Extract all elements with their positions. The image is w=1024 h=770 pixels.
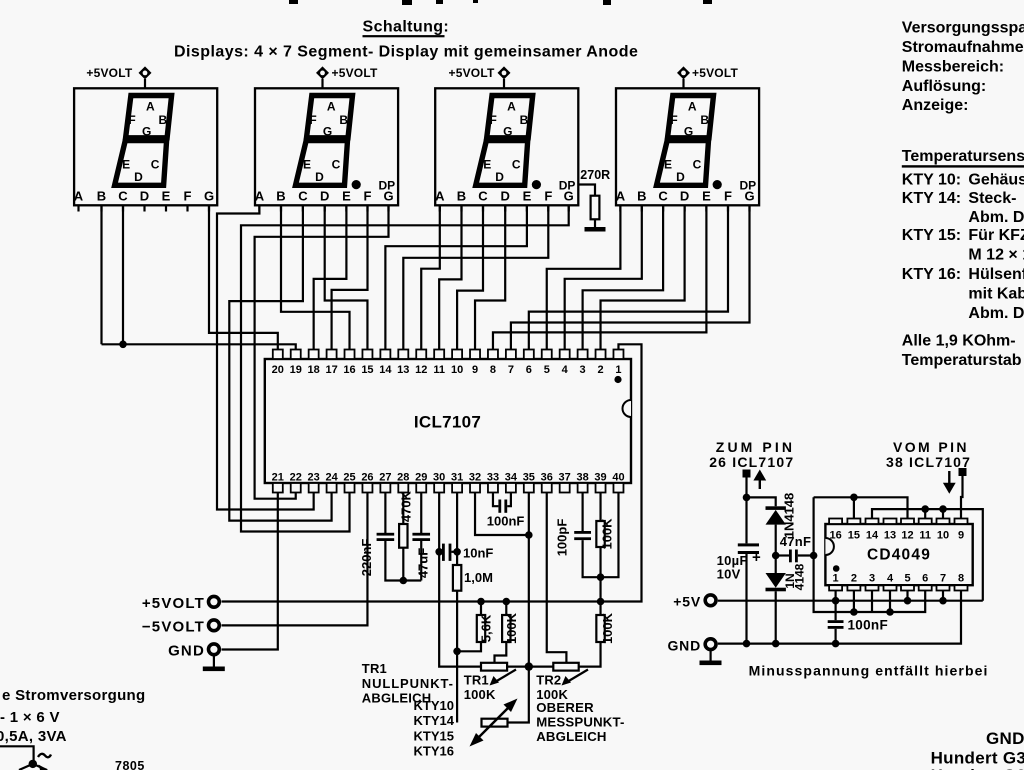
svg-text:Steck-: Steck- [968,190,1016,207]
capacitor 47nF [776,534,814,562]
svg-text:7805: 7805 [115,759,145,770]
svg-text:7: 7 [508,364,514,376]
wire DS1 segment B to pin19 bus [100,205,102,344]
svg-text:11: 11 [919,530,931,542]
svg-text:100K: 100K [599,518,614,550]
wire DS4 G to ICL7107 pin 7 [511,205,750,350]
wire DS2 D to ICL7107 pin 15 [325,205,368,350]
wire pin2 stub [853,591,855,613]
temperature sensor KTY (variable resistor) [470,699,518,747]
wire node to diode D1 [747,497,776,506]
svg-text:Stromaufnahme:: Stromaufnahme: [902,39,1024,56]
node B/C junction DS1 [119,341,127,349]
op-amp/ADC IC U1 ICL7107 body [265,359,631,483]
svg-text:ABGLEICH: ABGLEICH [536,729,606,744]
svg-text:G: G [684,125,693,139]
wire DS2 A to ICL7107 pin 23 [217,205,314,509]
svg-text:G: G [503,125,512,139]
svg-text:E: E [162,189,171,204]
terminal +5V [673,594,716,610]
svg-text:Hundert G3D: Hundert G3D [931,748,1024,767]
svg-text:A: A [327,100,336,114]
svg-text:38 ICL7107: 38 ICL7107 [886,454,971,470]
svg-text:VOM PIN: VOM PIN [893,439,969,455]
svg-text:Temperaturstab: Temperaturstab [902,352,1022,369]
svg-text:47uF: 47uF [415,548,430,578]
svg-text:Schaltung:: Schaltung: [363,19,450,36]
svg-text:D: D [676,170,685,184]
svg-text:A: A [146,100,155,114]
svg-text:B: B [637,189,646,204]
label TR1 100K [464,673,496,703]
wire +5V rail to ICL7107 pin 1 [222,344,642,601]
svg-text:Versorgungsspan: Versorgungsspan [902,20,1024,37]
svg-text:B: B [97,189,106,204]
svg-text:15: 15 [848,530,860,542]
svg-text:Für KFZ: Für KFZ [968,227,1024,244]
terminal −5VOLT [142,619,219,636]
svg-text:KTY 14:: KTY 14: [902,190,961,207]
svg-text:F: F [544,189,552,204]
svg-text:14: 14 [866,530,879,542]
capacitor 100nF (pins 33-34) [487,493,525,529]
display DS4 (7-segment, common anode) [616,88,759,211]
trimmer TR1 100K [481,663,529,686]
svg-text:24: 24 [325,472,338,484]
node zum-pin junction [743,494,751,502]
svg-text:GND: GND [667,638,701,654]
+5VOLT supply connector [86,66,151,88]
svg-text:2: 2 [597,364,603,376]
svg-text:F: F [184,189,192,204]
wire pad to CD4049 pin 9 [961,476,963,519]
node TR1/TR2/pin35 junction [525,662,533,670]
svg-text:0,5A, 3VA: 0,5A, 3VA [0,728,67,745]
ICL7107 pin-1 index dot [614,376,621,383]
svg-text:35: 35 [523,472,535,484]
+5VOLT supply connector [677,66,738,88]
svg-text:+5VOLT: +5VOLT [449,66,495,80]
wire pin3 stub [871,591,873,613]
svg-text:KTY14: KTY14 [414,713,455,728]
svg-text:5,6K: 5,6K [478,614,493,642]
wire DS4 E to ICL7107 pin 8 [493,205,706,350]
wire pin30 to TR1 left [439,493,481,667]
wire pin36 to TR2 wiper [547,493,567,663]
svg-text:8: 8 [958,573,964,585]
svg-text:+5V: +5V [673,594,701,610]
wire DS4 B to ICL7107 pin 4 [565,205,642,350]
svg-text:G: G [204,189,214,204]
terminal +5VOLT [142,595,219,612]
capacitor 100pF (pin 38) [555,493,619,578]
label AC tilde [38,754,51,757]
svg-text:31: 31 [451,472,463,484]
svg-text:DP: DP [740,179,757,193]
label OBERER MESSPUNKT-ABGLEICH [536,700,624,744]
svg-text:470K: 470K [398,490,413,522]
resistor 5,6K [457,598,493,652]
svg-text:ZUM PIN: ZUM PIN [716,439,795,455]
svg-text:Displays: 4 × 7 Segment- Disp: Displays: 4 × 7 Segment- Display mit gem… [174,44,638,61]
svg-text:KTY 15:: KTY 15: [902,227,961,244]
svg-text:C: C [118,189,128,204]
svg-text:D: D [501,189,510,204]
wire DS2 C to ICL7107 pin 24 [229,205,331,520]
svg-text:KTY16: KTY16 [414,744,454,759]
svg-text:13: 13 [397,364,409,376]
svg-text:- 1 × 6 V: - 1 × 6 V [0,709,60,726]
wire DS3 C to ICL7107 pin 10 [457,205,483,350]
svg-text:D: D [495,170,504,184]
svg-text:1N4148: 1N4148 [782,493,797,539]
svg-text:10nF: 10nF [463,546,493,561]
wire pin4 stub [889,591,891,613]
node 10uF/GND junction [743,640,751,648]
svg-text:+5VOLT: +5VOLT [332,66,378,80]
svg-text:Alle 1,9 KOhm-: Alle 1,9 KOhm- [902,333,1016,350]
svg-text:D: D [134,170,143,184]
svg-text:40: 40 [612,472,624,484]
wire DS4 C to ICL7107 pin 3 [583,205,663,350]
terminal GND [168,643,219,660]
CD4049 pin-1 index dot [833,565,840,572]
label TR2 100K [536,673,568,703]
svg-text:OBERER: OBERER [536,700,594,715]
wire DS3 B to ICL7107 pin 11 [439,205,461,350]
svg-text:GNDD: GNDD [986,729,1024,748]
display DS2 (7-segment, common anode) [255,88,398,211]
svg-text:E: E [342,189,351,204]
svg-text:ICL7107: ICL7107 [414,413,481,432]
svg-text:12: 12 [415,364,427,376]
svg-text:G: G [323,125,332,139]
node pin10 junction [939,505,947,513]
capacitor 10nF (pins 30-31) [439,544,493,561]
ground symbol below GND terminal [213,656,215,667]
svg-text:A: A [255,189,265,204]
svg-text:KTY15: KTY15 [414,728,454,743]
svg-text:34: 34 [505,472,518,484]
svg-text:100K: 100K [464,687,496,702]
svg-text:13: 13 [884,530,896,542]
svg-text:100nF: 100nF [487,514,525,529]
svg-text:8: 8 [490,364,496,376]
svg-text:F: F [128,113,135,127]
node pin11 junction [921,505,929,513]
svg-text:100K: 100K [600,612,615,644]
cut-off title text remnants at top edge [289,0,298,4]
node 470K/220nF/47uF junction [400,577,408,585]
svg-text:1: 1 [833,573,839,585]
wire DS2 G to ICL7107 pin 22 [255,205,389,498]
svg-text:37: 37 [559,472,571,484]
wire GND rail to CD4049 pin 8 [718,591,961,644]
wire pin32 to pin35 column [475,493,529,536]
svg-text:C: C [298,189,308,204]
svg-text:32: 32 [469,472,481,484]
svg-text:20: 20 [272,364,284,376]
svg-text:22: 22 [290,472,302,484]
node pins38/39/40 junction [597,573,605,581]
wire pin35 column down to sensor [508,493,529,723]
svg-text:A: A [435,189,445,204]
wire DS2 E to ICL7107 pin 18 [314,205,347,350]
svg-text:Auflösung:: Auflösung: [902,78,986,95]
resistor 100K (reference divider, below rail) [579,612,615,666]
svg-text:4148: 4148 [793,563,807,590]
svg-text:Temperatursenso: Temperatursenso [902,148,1024,165]
svg-text:D: D [680,189,689,204]
svg-text:F: F [364,189,372,204]
wire DS4 F to ICL7107 pin 6 [529,205,728,350]
svg-text:16: 16 [829,530,841,542]
svg-text:B: B [339,113,348,127]
node pin4 junction [886,608,894,616]
svg-text:DP: DP [559,179,576,193]
svg-text:Anzeige:: Anzeige: [902,97,969,114]
label KTY sensor types [414,698,455,759]
svg-text:270R: 270R [580,168,610,182]
underline Temperatursensoren [902,165,1024,167]
svg-text:F: F [309,113,316,127]
CD4049 top pin boxes and numbers (16..9) [829,519,967,542]
resistor 470K (pin 28) [398,490,413,580]
node 10nF left (pin30 column) [435,548,443,556]
svg-text:A: A [688,100,697,114]
node pin2 junction [850,608,858,616]
svg-text:G: G [142,125,151,139]
wire pin5 stub [906,591,908,601]
svg-text:+: + [752,549,761,566]
wire DS3 F to ICL7107 pin 13 [403,205,548,350]
svg-text:47nF: 47nF [780,534,812,549]
wire pin1 stub [834,591,836,601]
terminal pad to pin 26 [743,470,751,478]
svg-text:220nF: 220nF [359,539,374,577]
svg-text:C: C [658,189,668,204]
svg-text:E: E [664,157,672,171]
node pin7 junction [939,597,947,605]
svg-text:Abm. D: Abm. D [968,305,1024,322]
wire DS3 G to ICL7107 pin 25 [241,205,569,531]
svg-text:3: 3 [869,573,875,585]
DP dot DS2 [352,180,361,189]
ground symbol below CD4049 GND terminal [709,650,711,661]
label VOM PIN 38 ICL7107 [886,439,971,470]
svg-text:Hundert G3D: Hundert G3D [931,766,1024,770]
svg-text:D: D [140,189,149,204]
wire GND to ICL7107 pin 21 [222,493,278,650]
svg-text:4: 4 [562,364,569,376]
node pin5 junction [904,597,912,605]
node pin1 junction [832,597,840,605]
node 47nF / oscillator rail junction [810,552,818,560]
svg-text:E: E [702,189,711,204]
svg-text:16: 16 [343,364,355,376]
wire pin7 stub [942,591,944,601]
capacitor 220nF (pin 27) [359,493,421,581]
svg-text:E: E [523,189,532,204]
svg-text:Minusspannung entfällt hierbei: Minusspannung entfällt hierbei [749,663,989,679]
wire pad to 10uF [745,478,747,544]
capacitor 47uF (pin 29) [412,493,430,581]
trimmer TR2 100K [529,663,588,686]
wire DS1 segment G to ICL7107 pin 20 [209,205,278,350]
svg-text:−5VOLT: −5VOLT [142,619,205,636]
svg-text:F: F [670,113,677,127]
node 100nF/GND junction [832,640,840,648]
svg-text:29: 29 [415,472,427,484]
DP dot DS3 [532,180,541,189]
svg-text:28: 28 [397,472,409,484]
svg-text:Abm. D: Abm. D [968,209,1024,226]
svg-text:9: 9 [958,530,964,542]
svg-text:C: C [478,189,488,204]
svg-text:38: 38 [576,472,588,484]
arrow down (vom pin 38) [943,483,956,494]
svg-text:7: 7 [940,573,946,585]
svg-text:1: 1 [615,364,621,376]
svg-text:A: A [616,189,626,204]
svg-text:C: C [151,157,160,171]
svg-text:+5VOLT: +5VOLT [86,66,132,80]
svg-text:33: 33 [487,472,499,484]
svg-text:+5VOLT: +5VOLT [692,66,738,80]
arrow up (zum pin 26) [753,470,766,481]
svg-text:6: 6 [922,573,928,585]
svg-text:D: D [315,170,324,184]
transformer node dot [29,760,37,768]
ground symbol below 270R [585,227,606,232]
node 5,6K / IN-HI junction [453,648,461,656]
wire osc node to +5V rail [599,577,601,615]
svg-text:DP: DP [379,179,396,193]
svg-text:4: 4 [887,573,894,585]
svg-text:18: 18 [308,364,320,376]
svg-text:100K: 100K [504,612,519,644]
svg-text:A: A [74,189,84,204]
svg-text:14: 14 [379,364,392,376]
svg-text:GND: GND [168,643,205,660]
svg-text:10V: 10V [717,567,741,582]
wire DS2 F to ICL7107 pin 17 [332,205,368,350]
node pin15 junction [850,494,858,502]
svg-text:11: 11 [433,364,445,376]
svg-text:6: 6 [526,364,532,376]
svg-text:E: E [483,157,491,171]
svg-text:CD4049: CD4049 [867,547,931,564]
svg-text:12: 12 [901,530,913,542]
wire B/C bus to ICL7107 pin 19 [102,344,296,350]
svg-text:F: F [724,189,732,204]
resistor 100K (TR1 wiper feed) [495,598,520,663]
resistor 270R (DP series) [578,168,610,227]
svg-text:D: D [320,189,329,204]
svg-text:B: B [158,113,167,127]
svg-text:26 ICL7107: 26 ICL7107 [709,454,794,470]
wire DS4 D to ICL7107 pin 2 [601,205,685,350]
svg-text:Messbereich:: Messbereich: [902,58,1004,75]
wire DS2 B to ICL7107 pin 16 [281,205,350,350]
svg-text:3: 3 [580,364,586,376]
svg-text:25: 25 [343,472,355,484]
svg-text:E: E [303,157,311,171]
wire DS3 E to ICL7107 pin 14 [385,205,527,350]
svg-text:5: 5 [544,364,550,376]
svg-text:B: B [457,189,466,204]
svg-text:17: 17 [325,364,337,376]
bridge rectifier diagonals (cut) [19,764,47,770]
svg-text:100pF: 100pF [555,519,570,557]
svg-text:19: 19 [290,364,302,376]
svg-text:C: C [693,157,702,171]
wire DS1 segment C [122,205,124,344]
wire DS4 A to ICL7107 pin 5 [547,205,621,350]
wire DS3 D to ICL7107 pin 9 [475,205,505,350]
label TR1 NULLPUNKT-ABGLEICH [362,661,454,705]
svg-text:TR1: TR1 [464,673,489,688]
svg-text:27: 27 [379,472,391,484]
svg-text:C: C [332,157,341,171]
svg-text:+5VOLT: +5VOLT [142,595,205,612]
svg-text:Hülsenfü: Hülsenfü [968,266,1024,283]
svg-text:B: B [276,189,285,204]
capacitor 100nF (CD4049 supply) [828,601,888,644]
svg-text:A: A [507,100,516,114]
node D2/GND junction [772,640,780,648]
svg-text:MESSPUNKT-: MESSPUNKT- [536,714,624,729]
ICL7107 top pin boxes and numbers (20..1) [272,350,624,377]
svg-text:100nF: 100nF [848,618,889,633]
wire top rail to pins 15/12 [814,497,908,518]
title underline [363,35,445,37]
label ZUM PIN 26 ICL7107 [709,439,795,470]
svg-text:mit Kabe: mit Kabe [968,286,1024,303]
capacitor 10uF 10V electrolytic [717,543,761,643]
wire top rail 2 to pins 14/11/10 [872,509,983,601]
resistor 1,0M (pin 31) [453,493,493,723]
node pin32/pin35 junction [525,531,533,539]
node diode/47nF junction [772,552,780,560]
svg-text:B: B [520,113,529,127]
svg-text:23: 23 [308,472,320,484]
svg-text:NULLPUNKT-: NULLPUNKT- [362,676,454,691]
diode D2 1N4148 [766,556,807,644]
+5VOLT supply connector [449,66,511,88]
svg-text:30: 30 [433,472,445,484]
wire pin15 stub [853,497,855,518]
display DS3 (7-segment, common anode) [435,88,578,211]
resistor 100K (pin 39) [596,493,614,578]
svg-text:2: 2 [851,573,857,585]
svg-text:21: 21 [272,472,284,484]
svg-text:M 12 × 1: M 12 × 1 [968,247,1024,264]
terminal pad from pin 38 [959,468,967,476]
logic IC U2 CD4049 body [825,524,972,585]
svg-text:KTY10: KTY10 [414,698,454,713]
diode D1 1N4148 [766,493,797,556]
svg-text:e Stromversorgung: e Stromversorgung [2,687,145,704]
node rail junction (100K column) [597,598,605,606]
svg-text:TR1: TR1 [362,661,387,676]
wire +5V to CD4049 pins 1/5/7 [718,600,983,602]
svg-text:1,0M: 1,0M [464,570,493,585]
svg-text:C: C [512,157,521,171]
wire DS3 A to ICL7107 pin 12 [421,205,440,350]
display DS1 (7-segment, common anode) [74,88,217,211]
+5VOLT supply connector [316,66,378,88]
